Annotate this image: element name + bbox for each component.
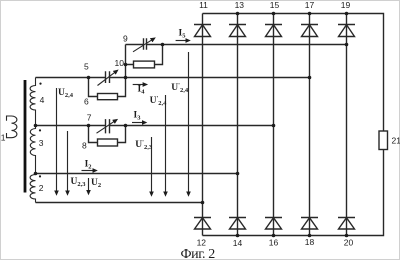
- svg-text:U'2,4: U'2,4: [171, 82, 189, 94]
- svg-text:3: 3: [39, 138, 44, 148]
- svg-text:I3: I3: [134, 111, 142, 122]
- svg-text:6: 6: [84, 97, 89, 107]
- svg-text:9: 9: [123, 34, 128, 44]
- svg-text:U'2,3: U'2,3: [135, 139, 153, 151]
- svg-text:16: 16: [269, 238, 279, 248]
- svg-text:U2: U2: [91, 178, 101, 189]
- svg-text:8: 8: [82, 141, 87, 151]
- svg-text:15: 15: [270, 0, 280, 10]
- svg-text:I4: I4: [138, 85, 146, 96]
- svg-text:U'2,4: U'2,4: [150, 95, 168, 107]
- svg-text:12: 12: [197, 237, 207, 247]
- svg-text:I5: I5: [179, 29, 187, 40]
- svg-text:U2,4: U2,4: [58, 88, 74, 99]
- svg-text:18: 18: [305, 237, 315, 247]
- svg-text:2: 2: [39, 183, 44, 193]
- svg-text:10: 10: [115, 58, 125, 68]
- svg-text:20: 20: [344, 238, 354, 248]
- svg-text:I2: I2: [85, 160, 92, 171]
- svg-text:14: 14: [233, 238, 243, 248]
- svg-text:7: 7: [87, 113, 92, 123]
- svg-text:11: 11: [199, 0, 208, 10]
- svg-text:5: 5: [84, 62, 89, 72]
- svg-text:U2,3: U2,3: [71, 177, 87, 188]
- svg-text:19: 19: [341, 0, 351, 10]
- svg-text:4: 4: [40, 95, 45, 105]
- svg-text:Фиг. 2: Фиг. 2: [181, 247, 216, 260]
- svg-text:17: 17: [305, 0, 315, 10]
- svg-text:13: 13: [235, 0, 245, 10]
- svg-text:1: 1: [1, 133, 6, 143]
- svg-text:21: 21: [392, 136, 400, 146]
